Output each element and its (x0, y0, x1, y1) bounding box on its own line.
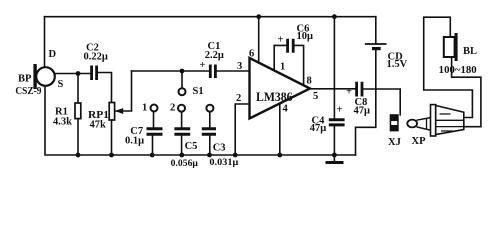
svg-text:10μ: 10μ (297, 31, 314, 42)
svg-text:4.3k: 4.3k (53, 117, 72, 128)
svg-text:BL: BL (463, 46, 477, 57)
svg-text:LM386: LM386 (256, 90, 293, 104)
svg-text:1.5V: 1.5V (387, 59, 408, 70)
svg-text:+: + (278, 35, 284, 46)
svg-text:+: + (346, 87, 352, 98)
svg-text:S: S (58, 79, 64, 90)
svg-text:1: 1 (142, 103, 147, 114)
svg-text:+: + (200, 60, 206, 71)
svg-text:3: 3 (237, 61, 242, 72)
svg-text:100~180: 100~180 (439, 65, 477, 76)
svg-text:2: 2 (236, 93, 241, 104)
svg-text:CSZ-9: CSZ-9 (15, 86, 41, 97)
svg-text:C3: C3 (213, 143, 226, 154)
svg-text:C5: C5 (185, 141, 198, 152)
svg-text:4: 4 (283, 104, 289, 115)
svg-text:8: 8 (307, 76, 312, 87)
svg-text:2.2μ: 2.2μ (205, 50, 224, 61)
svg-text:47μ: 47μ (354, 106, 371, 117)
svg-text:S1: S1 (193, 86, 204, 97)
svg-text:0.056μ: 0.056μ (171, 159, 199, 169)
svg-text:6: 6 (249, 49, 254, 60)
svg-text:2: 2 (170, 103, 175, 114)
svg-text:XP: XP (412, 136, 427, 147)
svg-text:0.031μ: 0.031μ (209, 158, 239, 168)
svg-text:1: 1 (280, 62, 285, 73)
svg-text:D: D (49, 49, 57, 60)
svg-text:+: + (337, 105, 343, 116)
svg-text:5: 5 (313, 91, 318, 102)
svg-text:0.22μ: 0.22μ (84, 52, 108, 63)
svg-text:0.1μ: 0.1μ (125, 135, 144, 146)
svg-text:47μ: 47μ (310, 123, 327, 134)
svg-text:XJ: XJ (388, 137, 401, 148)
svg-text:47k: 47k (90, 120, 107, 131)
svg-text:BP: BP (18, 74, 32, 85)
